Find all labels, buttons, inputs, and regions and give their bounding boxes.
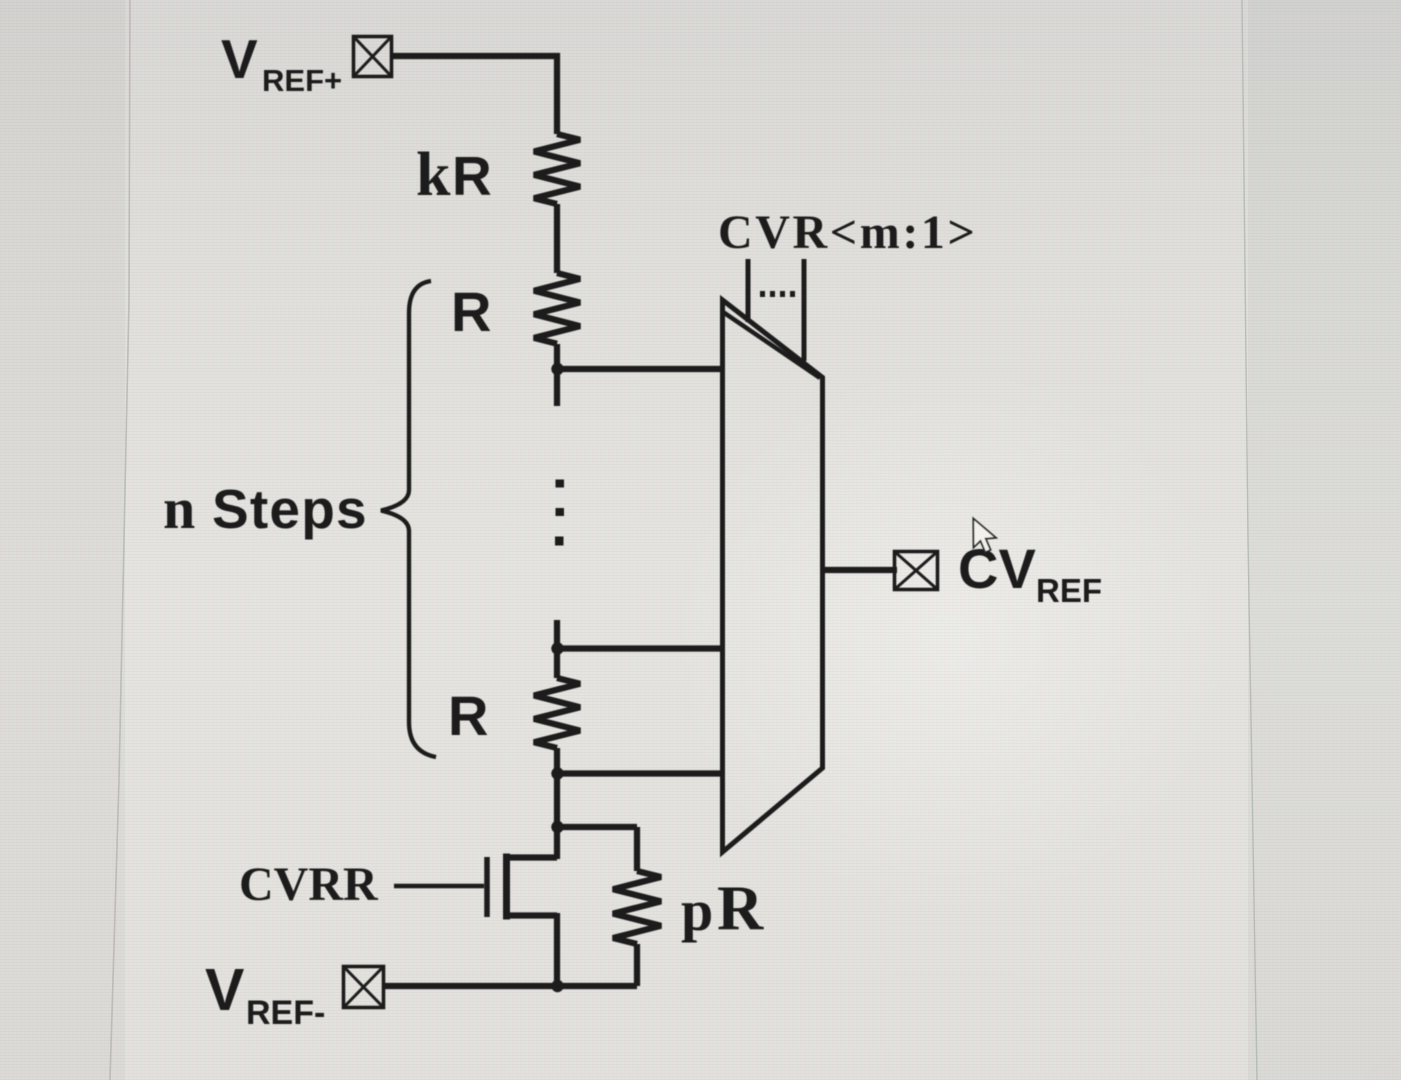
resistor R top	[534, 273, 580, 344]
svg-text:R: R	[451, 280, 491, 343]
node source junction dot	[551, 980, 563, 992]
resistor kR	[534, 134, 580, 204]
mux select strip	[723, 312, 820, 378]
node 1 junction dot	[551, 363, 563, 375]
wire R to node1	[554, 344, 560, 369]
select ellipsis dots	[760, 291, 765, 297]
resistor R bottom	[534, 678, 580, 748]
node 3 junction dot	[551, 767, 563, 779]
wire node3 to drain node	[554, 774, 560, 828]
screen boundary left	[110, 0, 130, 1080]
svg-text:CVR<m:1>: CVR<m:1>	[718, 206, 977, 259]
screen boundary right	[1242, 0, 1257, 1080]
transistor channel bar	[503, 854, 510, 920]
svg-text:R: R	[717, 872, 764, 943]
pad CVREF	[895, 552, 938, 590]
node 2 junction dot	[551, 642, 563, 654]
svg-text:k: k	[416, 141, 451, 209]
wire pR top lead	[634, 827, 640, 871]
pad VREF-	[344, 967, 384, 1008]
wire drain node to pR	[558, 824, 637, 830]
wire R bottom to node3	[554, 748, 560, 774]
ladder ellipsis dots	[556, 480, 565, 488]
node drain junction dot	[551, 821, 563, 833]
wire drain riser	[554, 827, 560, 859]
wire CVRR gate	[394, 884, 484, 889]
wire node1 to mux	[557, 366, 722, 372]
mux body	[723, 300, 823, 852]
svg-text:CV: CV	[958, 537, 1036, 600]
svg-text:R: R	[452, 145, 492, 207]
svg-text:p: p	[681, 878, 713, 943]
wire select line 2	[802, 259, 807, 361]
wire source drop	[554, 913, 560, 986]
svg-text:n: n	[163, 476, 195, 541]
wire kR to R	[554, 204, 560, 273]
wire ladder below node1	[554, 369, 560, 406]
wire node3 to mux	[557, 770, 722, 776]
brace n Steps	[381, 281, 436, 757]
wire node2 to mux	[557, 645, 722, 651]
svg-text:REF+: REF+	[262, 63, 342, 98]
wire node2 to R bottom	[554, 649, 560, 679]
resistor pR	[613, 871, 661, 944]
svg-text:R: R	[448, 684, 488, 747]
wire ladder above node2	[554, 620, 560, 649]
wire pR bottom lead	[634, 944, 640, 986]
transistor gate bar	[484, 857, 490, 917]
svg-text:Steps: Steps	[212, 478, 368, 540]
wire drain	[505, 854, 557, 860]
svg-text:V: V	[205, 957, 244, 1023]
svg-text:CVRR: CVRR	[239, 858, 379, 911]
wire select line 1	[746, 259, 751, 322]
svg-text:REF-: REF-	[246, 994, 325, 1032]
wire bottom VREF- rail	[384, 983, 637, 989]
svg-text:REF: REF	[1036, 572, 1102, 609]
pad VREF+	[354, 37, 392, 77]
mouse cursor	[973, 519, 996, 553]
wire mux output	[822, 567, 897, 573]
svg-text:V: V	[221, 28, 258, 90]
wire source	[505, 912, 557, 918]
wire VREF+ to ladder top	[392, 56, 557, 134]
